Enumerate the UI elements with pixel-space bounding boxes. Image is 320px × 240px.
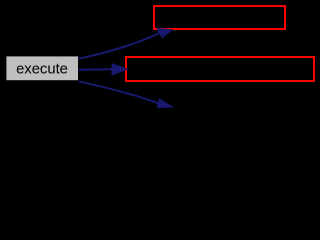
- wire arrow to bottom node: [79, 81, 159, 103]
- wire arrow to top box: [79, 33, 160, 59]
- wire arrow to middle box: [79, 68, 114, 70]
- svg-text:execute: execute: [16, 62, 68, 78]
- node box middle-right (red border): [126, 57, 314, 81]
- node execute (grey): [6, 56, 78, 80]
- node box top-right (red border): [154, 6, 285, 29]
